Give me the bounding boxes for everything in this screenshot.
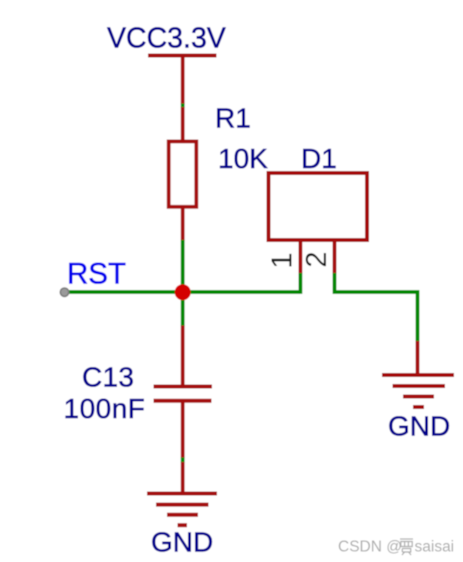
svg-text:GND: GND (151, 527, 213, 558)
wire (181, 292, 185, 326)
ground (right) (382, 375, 454, 407)
svg-text:saisai: saisai (415, 539, 455, 556)
svg-text:2: 2 (301, 251, 333, 267)
svg-text:100nF: 100nF (64, 393, 146, 424)
svg-text:CSDN @: CSDN @ (338, 539, 402, 556)
svg-text:D1: D1 (301, 143, 337, 174)
wire (416, 341, 420, 375)
ground (bottom) (147, 462, 217, 525)
wire (181, 458, 185, 463)
wire (65, 290, 301, 294)
svg-text:C13: C13 (82, 362, 134, 393)
wire (181, 104, 185, 108)
junction (175, 284, 191, 300)
node RST terminal (60, 288, 68, 296)
resistor R1 (169, 107, 197, 241)
power VCC3.3V (107, 23, 226, 105)
svg-text:R1: R1 (215, 103, 251, 134)
wire (181, 240, 185, 292)
wire (298, 273, 302, 294)
svg-text:GND: GND (388, 411, 450, 442)
diode D1 (269, 173, 368, 274)
svg-text:10K: 10K (218, 143, 268, 174)
svg-text:RST: RST (67, 258, 126, 291)
svg-text:VCC3.3V: VCC3.3V (107, 23, 226, 55)
wire (335, 273, 418, 342)
svg-text:1: 1 (267, 253, 299, 269)
watermark CSDN (338, 539, 454, 556)
capacitor C13 (154, 326, 213, 459)
